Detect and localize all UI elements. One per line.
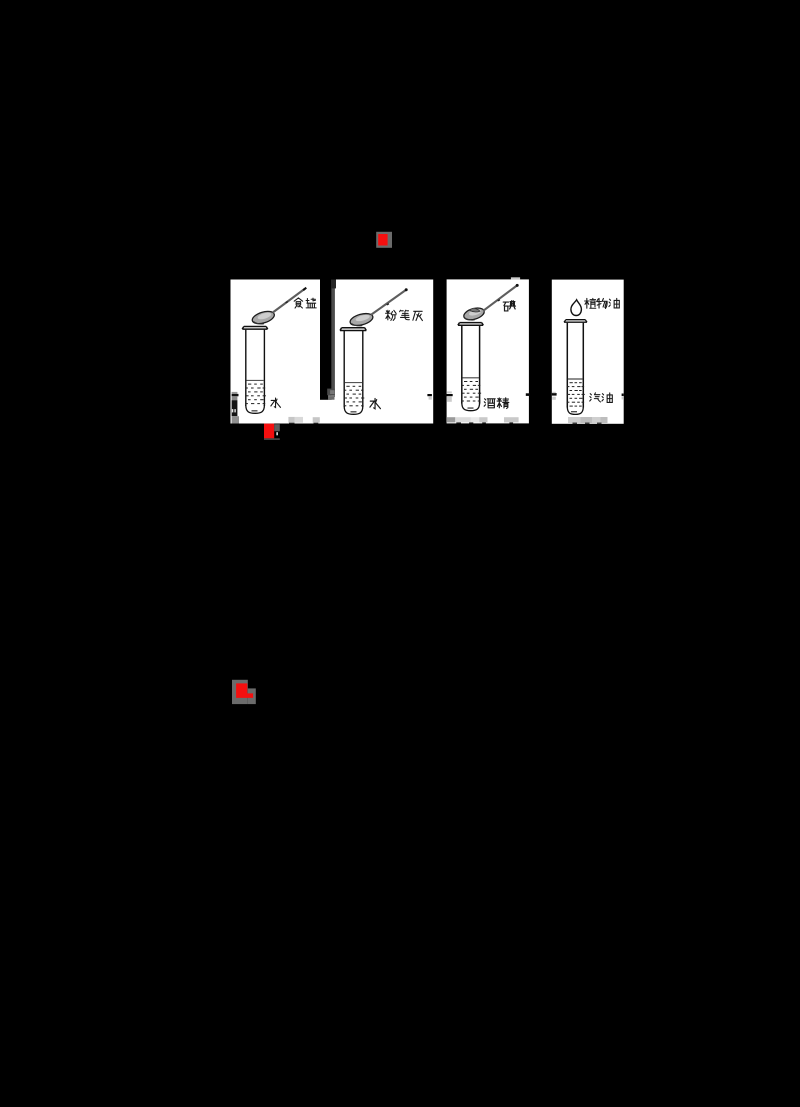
vertical gray bar between panel 1 and 2 <box>332 280 335 398</box>
test tube 3 rounded bottom <box>462 403 480 411</box>
water dashes tube1 <box>245 384 266 412</box>
spoon 2 handle tip dot <box>405 288 408 291</box>
test tube 4 rounded bottom <box>567 407 583 415</box>
spoon 2 handle <box>371 290 406 315</box>
spoon 1 handle <box>273 289 305 313</box>
test tube 4 walls <box>567 323 583 408</box>
test tube 2 lip <box>340 328 366 331</box>
spoon 1 handle tip dash <box>303 288 306 291</box>
broken-image icon 3 (lower left area) <box>232 680 256 704</box>
spoon 1 bowl <box>251 309 276 326</box>
gray caption blocks at bottom of panel 1 <box>288 417 319 424</box>
figure panel 4 white background <box>552 280 624 424</box>
spoon 3 handle tip dot <box>516 284 519 287</box>
broken-image icon 1 (above figure) <box>376 232 392 248</box>
broken-image icon 2 (below panel 1) <box>264 424 280 440</box>
label 粉笔灰 (chalk dust) <box>386 310 397 320</box>
test tube 1 water line <box>246 379 263 381</box>
spoon 1 bowl sketch line <box>254 322 265 324</box>
spoon 2 bowl <box>349 311 374 327</box>
spoon 3 handle <box>483 286 517 311</box>
liquid dashes tube3 <box>461 381 481 409</box>
water dashes tube2 <box>344 386 365 413</box>
test tube 3 walls <box>462 326 480 404</box>
spoon 1 handle mid tick <box>286 302 288 303</box>
gap between panel 1 and 2 (dark) <box>320 280 332 400</box>
test tube 3 liquid line <box>462 377 479 379</box>
spoon 3 bowl <box>462 306 485 322</box>
label 酒精 (alcohol) <box>484 399 495 408</box>
gray bar textured foot <box>327 389 335 396</box>
test tube 2 water line <box>345 382 362 384</box>
figure panel 3 white background <box>447 279 529 423</box>
light gray smudges near the tick row <box>429 391 624 401</box>
dashed underline row across figure (black ticks near panel edges) <box>427 393 623 396</box>
gray bar dark top cap <box>331 280 336 289</box>
label 碘 (iodine) <box>503 301 515 311</box>
test tube 4 lip <box>564 320 587 323</box>
test tube 1 walls <box>246 330 265 406</box>
liquid dashes tube4 <box>567 382 585 412</box>
iodine pile on spoon 3 <box>470 308 481 312</box>
test tube 1 rounded bottom <box>246 405 265 413</box>
label 食盐 (salt) <box>294 298 303 308</box>
test tube 2 walls <box>344 331 363 407</box>
test tube 1 lip <box>242 327 268 330</box>
test tube 3 lip <box>458 323 483 326</box>
spoon 2 bowl sketch line <box>352 324 363 326</box>
clipped glyph column at left edge of panel 1 <box>232 392 239 424</box>
gray sliver atop panel 3 <box>511 277 520 279</box>
test tube 4 liquid line <box>568 378 583 380</box>
label 汽油 (gasoline) <box>590 393 601 402</box>
label 水 (water) panel 2 <box>370 399 381 409</box>
figure panel 1+2 white background <box>231 280 434 424</box>
gray caption blocks at bottom of panel 4 <box>568 417 608 424</box>
oil droplet <box>571 300 582 316</box>
spoon 2 handle mid tick <box>387 304 389 305</box>
spoon 3 handle mid tick <box>498 300 500 301</box>
label 植物油 (vegetable oil) <box>585 298 596 308</box>
gray caption blocks at bottom of panel 3 <box>447 417 519 423</box>
test tube 2 rounded bottom <box>344 406 363 414</box>
spoon 3 bowl sketch line <box>465 318 475 320</box>
label 水 (water) panel 1 <box>271 398 281 407</box>
